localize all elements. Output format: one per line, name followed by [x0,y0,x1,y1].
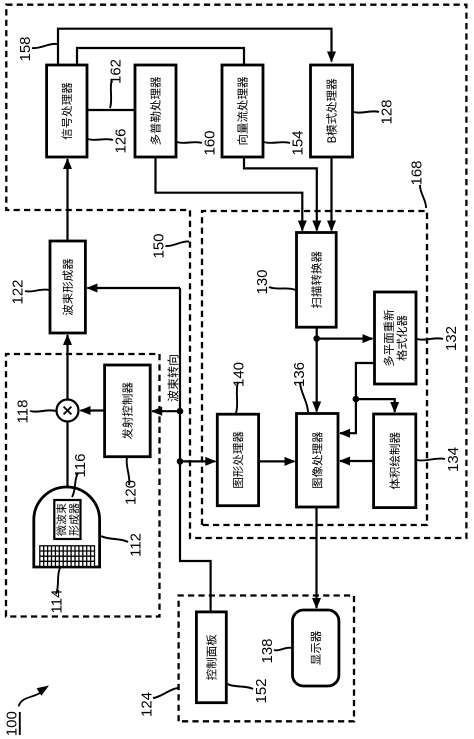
wire signal to doppler (162) [87,109,135,111]
label 112 [101,533,145,557]
dashed system boundary 150 (L-shaped) [6,5,466,538]
label 160 [177,130,219,155]
label 122 [10,279,49,304]
svg-text:160: 160 [202,130,219,155]
box 128 B-mode processor [311,65,353,157]
wire MPR link, junction [356,363,375,399]
svg-text:100: 100 [4,711,21,736]
wire doppler out to scan converter [156,157,303,231]
svg-text:128: 128 [379,99,396,124]
label 128 [354,99,396,124]
svg-text:150: 150 [151,233,168,258]
box 116 microbeamformer [54,500,80,539]
label 100 (figure reference) [4,686,49,737]
svg-text:154: 154 [290,130,307,155]
transducer array 114 grid [40,546,95,567]
box 136 image processor [297,414,339,508]
wire signal bus to vector flow [77,48,244,65]
label 168 [409,160,426,208]
label 136 [291,362,308,412]
multiplier node 118 [57,400,79,422]
label 126 [88,128,130,153]
net label: beam steering [167,355,178,401]
label 140 [231,362,248,413]
svg-text:126: 126 [113,128,130,153]
dashed box 168 [202,211,427,525]
wire B-mode out to scan converter [330,157,332,231]
svg-text:162: 162 [108,59,125,84]
box 154 vector flow processor [222,65,263,157]
wire volume renderer to image processor [340,460,374,462]
box 160 doppler processor [135,65,176,157]
label 114 [49,568,66,613]
label 158 [17,36,57,61]
box 122 beamformer [50,241,85,333]
wire multiplier to beamformer [66,335,68,400]
label 150 [151,233,189,258]
probe 112 outline [34,487,100,567]
svg-text:152: 152 [253,678,270,703]
svg-text:124: 124 [139,692,156,717]
label 134 [417,447,462,472]
svg-text:158: 158 [17,36,34,61]
box 152 control panel [196,612,226,703]
wire signal bus to B-mode (158) [58,29,332,65]
wire beamformer to signal processor [66,159,68,241]
label 162 [108,59,125,108]
svg-text:116: 116 [72,454,89,478]
box 126 signal processor [47,65,87,157]
svg-text:130: 130 [254,269,271,294]
svg-text:140: 140 [231,362,248,387]
svg-text:138: 138 [259,638,276,663]
label 120 [123,458,140,505]
label 118 [15,400,56,424]
box 130 scan converter [297,233,337,328]
svg-text:112: 112 [128,533,145,557]
wire scan converter out, junction [316,327,318,338]
dashed box 124 [179,596,354,722]
label 116 [72,454,89,497]
label 152 [228,678,271,703]
svg-text:118: 118 [15,400,32,424]
svg-text:168: 168 [409,160,426,185]
wire transmit controller to multiplier [81,409,105,411]
svg-text:134: 134 [445,447,462,472]
box 134 volume renderer [374,414,416,508]
label 154 [264,130,307,155]
svg-text:120: 120 [123,480,140,505]
box 138 display [293,610,339,686]
box 140 graphics processor [217,414,258,506]
box 132 multiplanar reformatter [375,292,417,384]
wire vector flow out to scan converter [244,157,317,231]
label 138 [259,638,291,663]
label 132 [417,326,460,351]
wire graphics to image processor [259,460,295,462]
dashed probe box [6,354,160,617]
svg-text:132: 132 [443,326,460,351]
svg-text:122: 122 [10,279,27,304]
box 120 transmit controller [105,365,151,457]
wire control panel beam steering line [180,288,211,612]
label 130 [254,269,295,294]
label 124 [139,688,178,717]
wire multiplier to microbeamformer [66,422,68,499]
wire image processor to display [315,507,317,608]
